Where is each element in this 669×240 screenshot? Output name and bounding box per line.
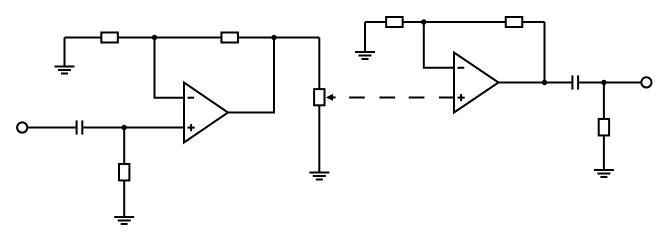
ground	[55, 38, 75, 74]
wire	[544, 22, 546, 83]
wire	[123, 182, 125, 218]
node E	[542, 80, 547, 85]
wire	[365, 21, 545, 23]
node C	[271, 35, 276, 40]
wire	[228, 38, 274, 113]
capacitor C1	[77, 120, 83, 134]
wire	[65, 37, 320, 39]
ground	[355, 22, 375, 59]
output terminal	[641, 77, 651, 87]
ground	[114, 217, 134, 224]
ground	[594, 170, 614, 177]
wire	[603, 83, 605, 120]
wire	[603, 137, 605, 171]
capacitor C2	[572, 75, 578, 89]
resistor R4	[386, 17, 403, 27]
wire	[318, 106, 320, 173]
resistor R2	[119, 164, 129, 181]
node B	[152, 35, 157, 40]
node F	[601, 80, 606, 85]
wire (dashed link)	[349, 97, 454, 99]
wire	[155, 38, 185, 98]
input terminal	[17, 122, 27, 132]
wire	[123, 128, 125, 165]
ground	[309, 173, 329, 180]
wire	[499, 82, 572, 84]
wire	[28, 127, 75, 129]
wire	[579, 82, 640, 84]
op-amp U2	[454, 53, 499, 113]
op-amp U1	[184, 83, 228, 143]
wire	[424, 22, 454, 68]
node D	[421, 19, 426, 24]
node A	[122, 125, 127, 130]
resistor R6	[599, 119, 609, 136]
resistor R3	[221, 33, 238, 43]
wire	[318, 38, 320, 90]
potentiometer	[314, 89, 336, 105]
resistor R5	[506, 17, 523, 27]
wire	[83, 127, 184, 129]
resistor R1	[101, 33, 118, 43]
